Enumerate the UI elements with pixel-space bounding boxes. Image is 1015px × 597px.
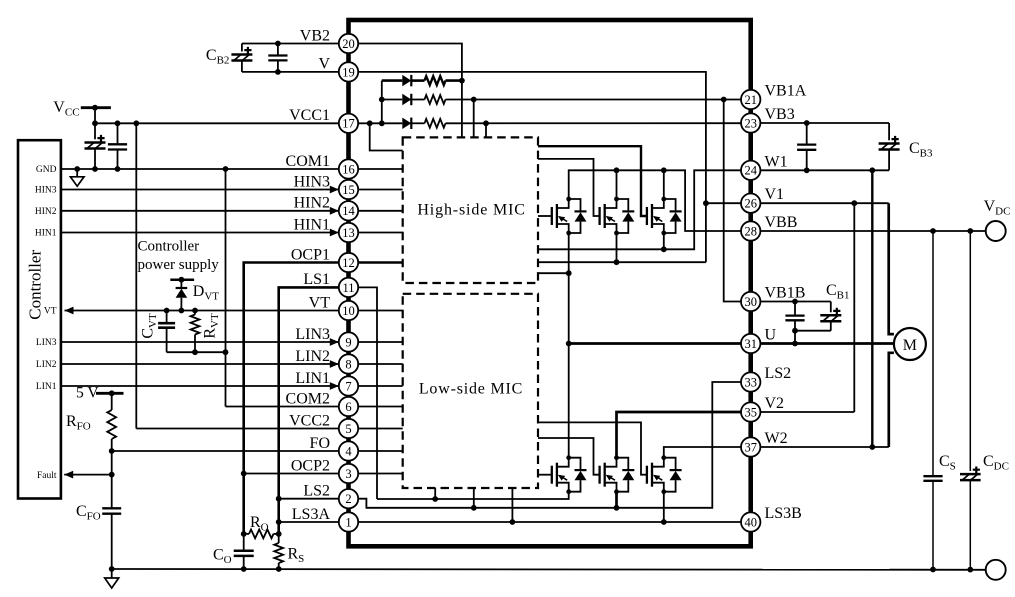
- svg-text:High-side MIC: High-side MIC: [417, 201, 525, 218]
- transistor Q4 low-side U: [552, 455, 587, 494]
- controller pin label HIN2: [35, 207, 57, 217]
- svg-text:LIN1: LIN1: [36, 382, 57, 392]
- wire W2 node to pin 37: [664, 447, 751, 458]
- pin 30: [741, 292, 760, 311]
- wire HIN2 into high-side MIC: [349, 210, 403, 212]
- svg-text:LIN1: LIN1: [295, 370, 330, 387]
- pin 1: [339, 512, 358, 531]
- wire high-side gate feed U phase: [538, 215, 552, 217]
- wire V1 row to pin 26: [706, 202, 751, 204]
- svg-text:Low-side MIC: Low-side MIC: [419, 381, 523, 398]
- wire U row pin 31 to motor: [569, 342, 894, 345]
- wire low-side gate feed W phase: [538, 422, 647, 474]
- bootstrap branch 1 diode and resistor: [382, 75, 465, 86]
- wire COM1 / GND row: [61, 166, 349, 172]
- label COM2 at pin: [286, 390, 330, 407]
- svg-text:V: V: [318, 56, 330, 73]
- svg-text:LS2: LS2: [765, 365, 792, 382]
- bootstrap branch 3 diode and resistor on VCC1 row: [349, 118, 751, 129]
- pin 14: [339, 201, 358, 220]
- transistor Q6 low-side W: [647, 455, 682, 494]
- label LS3B at pin: [765, 505, 802, 522]
- label VB1B at pin: [765, 285, 806, 302]
- pin 28: [741, 221, 760, 240]
- transistor Q1 high-side U: [552, 197, 587, 236]
- wire HIN1 row: [61, 229, 339, 237]
- wire VB1A row to pin 21 riser to pin 30: [724, 100, 751, 302]
- label FO at pin: [310, 435, 330, 452]
- svg-text:U: U: [765, 327, 777, 344]
- wire high-side MIC U source sense: [538, 270, 572, 276]
- controller block: [18, 140, 61, 498]
- svg-text:10: 10: [342, 304, 355, 318]
- svg-text:Controller: Controller: [26, 250, 45, 320]
- pin 24: [741, 161, 760, 180]
- motor M: [894, 328, 926, 360]
- svg-text:11: 11: [342, 281, 354, 295]
- svg-text:1: 1: [345, 515, 351, 529]
- svg-text:2: 2: [345, 492, 351, 506]
- capacitor electrolytic CB3: [879, 123, 933, 170]
- wire VB1B row external: [751, 299, 831, 305]
- controller pin label LIN2: [36, 360, 57, 370]
- label LIN1 at pin: [295, 370, 330, 387]
- svg-text:COM1: COM1: [286, 153, 330, 170]
- capacitor ceramic at CB3: [797, 123, 816, 170]
- label VT at pin: [309, 294, 331, 311]
- svg-text:LIN3: LIN3: [295, 326, 330, 343]
- svg-text:16: 16: [342, 162, 355, 176]
- wire LS3 source rail pin 1 to pin 40: [279, 519, 751, 525]
- svg-text:LS3A: LS3A: [292, 506, 331, 523]
- resistor RS: [274, 534, 304, 569]
- svg-text:HIN1: HIN1: [294, 216, 330, 233]
- svg-text:LIN3: LIN3: [36, 338, 57, 348]
- capacitor electrolytic at VCC: [85, 123, 106, 169]
- pin 6: [339, 397, 358, 416]
- svg-text:HIN3: HIN3: [35, 186, 57, 196]
- svg-text:30: 30: [744, 295, 757, 309]
- wire RFO to Fault vertical: [109, 451, 115, 478]
- wire VT into low-side MIC: [349, 310, 403, 312]
- label W1 at pin: [765, 153, 788, 170]
- wire LS1 source rail: [377, 492, 569, 502]
- wire V phase motor drop: [889, 203, 894, 334]
- wire LS1 run to shunt: [276, 287, 349, 534]
- controller pin label LIN3: [36, 338, 57, 348]
- wire low-side MIC sense tick W: [511, 488, 513, 522]
- controller pin label VT: [44, 307, 57, 317]
- wire LS1 inside run: [349, 287, 378, 499]
- wire bootstrap left vertical: [379, 81, 385, 127]
- pin 20: [339, 34, 358, 53]
- resistor RVT: [191, 311, 221, 353]
- wire LIN3 row: [61, 338, 339, 346]
- pin 11: [339, 278, 358, 297]
- controller pin label HIN3: [35, 186, 57, 196]
- resistor RFO: [66, 393, 116, 451]
- wire low-side MIC sense tick V: [473, 488, 475, 508]
- transistor Q5 low-side V: [600, 455, 635, 494]
- svg-text:31: 31: [744, 337, 757, 351]
- pin 5: [339, 419, 358, 438]
- wire VCC2 row: [136, 428, 348, 430]
- wire V2 row external: [751, 411, 855, 413]
- wire W2 row external to motor riser: [751, 446, 889, 448]
- wire LIN2 into low-side MIC: [349, 363, 403, 365]
- svg-text:33: 33: [744, 375, 757, 389]
- svg-text:23: 23: [744, 116, 757, 130]
- wire HIN2 row: [61, 207, 339, 215]
- bootstrap branch 2 diode and resistor: [382, 94, 751, 105]
- wire Fault row: [64, 471, 112, 479]
- wire LIN1 row: [61, 382, 339, 390]
- transistor Q2 high-side V: [600, 197, 635, 236]
- label VCC2 at pin: [289, 412, 330, 429]
- label VBB at pin: [765, 214, 798, 231]
- svg-text:HIN2: HIN2: [294, 195, 330, 212]
- svg-text:HIN2: HIN2: [35, 207, 57, 217]
- capacitor CVT: [140, 311, 176, 353]
- label V at pin: [318, 56, 330, 73]
- pin 12: [339, 253, 358, 272]
- wire VT row: [65, 307, 349, 315]
- svg-text:4: 4: [345, 444, 352, 458]
- svg-text:5: 5: [345, 422, 351, 436]
- wire COM2 row: [226, 406, 349, 408]
- svg-text:15: 15: [342, 183, 355, 197]
- resistor RO: [241, 514, 282, 538]
- terminal VDC: [984, 198, 1011, 241]
- node VCC supply: [53, 99, 111, 123]
- ground symbol at bottom left: [105, 569, 119, 588]
- pin 9: [339, 332, 358, 351]
- pin 23: [741, 113, 760, 132]
- svg-text:OCP2: OCP2: [291, 457, 330, 474]
- svg-text:14: 14: [342, 204, 355, 218]
- pin 3: [339, 464, 358, 483]
- svg-text:V2: V2: [765, 395, 785, 412]
- controller pin label Fault: [37, 471, 57, 481]
- wire Q5 source drop: [615, 492, 618, 508]
- svg-text:LS3B: LS3B: [765, 505, 802, 522]
- IC package outline U1: [349, 20, 751, 546]
- wire LIN1 into low-side MIC: [349, 385, 403, 387]
- svg-text:VCC2: VCC2: [289, 412, 330, 429]
- wire Q3 drain riser: [663, 170, 665, 199]
- svg-text:OCP1: OCP1: [291, 246, 330, 263]
- svg-text:LS2: LS2: [303, 483, 330, 500]
- wire W1 to W2 tie: [869, 170, 875, 450]
- svg-text:19: 19: [342, 65, 355, 79]
- pin 2: [339, 489, 358, 508]
- wire VB2 row: [242, 41, 349, 47]
- pin 15: [339, 180, 358, 199]
- svg-text:40: 40: [744, 515, 757, 529]
- capacitor CFO: [76, 475, 121, 569]
- svg-text:VT: VT: [309, 294, 331, 311]
- label U at pin: [765, 327, 777, 344]
- label V2 at pin: [765, 395, 785, 412]
- svg-text:VB1B: VB1B: [765, 285, 806, 302]
- wire COM1 into high-side MIC: [349, 168, 403, 170]
- label VB2 at pin: [300, 27, 330, 44]
- wire HIN3 row: [61, 186, 339, 194]
- wire HIN1 into high-side MIC: [349, 232, 403, 234]
- wire Q2 source drop: [616, 233, 618, 262]
- svg-text:V1: V1: [765, 186, 785, 203]
- svg-text:HIN1: HIN1: [35, 229, 57, 239]
- pin 4: [339, 441, 358, 460]
- pin 17: [339, 114, 358, 133]
- wire GND to COM2 vertical: [225, 169, 227, 407]
- svg-text:24: 24: [744, 164, 757, 178]
- svg-text:power supply: power supply: [138, 257, 220, 273]
- wire V1 to V2 tie: [853, 203, 855, 412]
- label controller power supply: [138, 239, 220, 274]
- terminal negative DC bus: [986, 560, 1006, 580]
- capacitor electrolytic CB2: [206, 44, 253, 72]
- wire ground bus bottom: [109, 566, 986, 572]
- label HIN3 at pin: [294, 173, 330, 190]
- controller pin label LIN1: [36, 382, 57, 392]
- transistor Q3 high-side W: [647, 197, 682, 236]
- wire Q3 source to pin 24 W1: [538, 170, 751, 252]
- label LS2 at pin: [303, 483, 330, 500]
- svg-text:LIN2: LIN2: [36, 360, 57, 370]
- svg-text:HIN3: HIN3: [294, 173, 330, 190]
- wire OCP2 into low-side MIC: [349, 473, 403, 475]
- wire OCP1 run to sense network: [244, 263, 349, 534]
- wire V1 row external to motor drop: [751, 200, 889, 206]
- svg-text:20: 20: [342, 37, 355, 51]
- svg-text:26: 26: [744, 197, 757, 211]
- wire low-side MIC sense tick U: [434, 488, 436, 499]
- wire VB3 row external: [751, 120, 889, 126]
- wire VBB row to VDC terminal: [751, 228, 986, 234]
- pin 40: [741, 512, 760, 531]
- wire LIN2 row: [61, 360, 339, 368]
- wire Q2 source rail V1: [538, 259, 706, 265]
- capacitor electrolytic CDC: [960, 231, 1009, 570]
- wire CVT RVT ground rail: [167, 349, 229, 355]
- wire V2 node to pin 35: [617, 412, 751, 458]
- svg-text:21: 21: [744, 93, 757, 107]
- wire VCC1 into high-side MIC: [370, 123, 403, 150]
- svg-text:GND: GND: [36, 165, 57, 175]
- wire VCC1 to VCC2 vertical: [135, 123, 137, 428]
- svg-text:M: M: [903, 337, 917, 354]
- svg-text:W1: W1: [765, 153, 788, 170]
- wire LS2 row left: [279, 498, 349, 500]
- svg-text:6: 6: [345, 400, 351, 414]
- svg-text:7: 7: [345, 379, 351, 393]
- svg-text:12: 12: [342, 256, 355, 270]
- svg-text:VB2: VB2: [300, 27, 330, 44]
- wire Q6 source drop: [663, 492, 665, 522]
- svg-text:13: 13: [342, 226, 355, 240]
- pin 8: [339, 354, 358, 373]
- capacitor ceramic at CB2: [268, 44, 287, 72]
- label LS1 at pin: [303, 271, 330, 288]
- capacitor ceramic at CB1: [785, 302, 804, 331]
- wire FO into low-side MIC: [349, 450, 403, 452]
- diode DVT: [170, 277, 219, 311]
- wire high-side gate feed W phase: [538, 146, 647, 216]
- svg-text:VB1A: VB1A: [765, 83, 807, 100]
- pin 33: [741, 372, 760, 391]
- high-side MIC block: [403, 137, 538, 283]
- wire V row to pin 19: [242, 69, 349, 75]
- capacitor electrolytic CB1: [820, 282, 849, 331]
- label W2 at pin: [765, 430, 788, 447]
- low-side MIC block: [403, 294, 538, 488]
- controller pin label HIN1: [35, 229, 57, 239]
- svg-text:28: 28: [744, 224, 757, 238]
- svg-text:VB3: VB3: [765, 106, 795, 123]
- label VB1A at pin: [765, 83, 807, 100]
- label HIN2 at pin: [294, 195, 330, 212]
- svg-text:Controller: Controller: [138, 239, 200, 255]
- wire branch 2 into high-side MIC: [473, 100, 475, 138]
- capacitor CS: [923, 231, 955, 570]
- pin 19: [339, 62, 358, 81]
- label COM1 at pin: [286, 153, 330, 170]
- label LIN2 at pin: [295, 348, 330, 365]
- svg-text:9: 9: [345, 335, 351, 349]
- svg-text:Fault: Fault: [37, 471, 57, 481]
- svg-text:COM2: COM2: [286, 390, 330, 407]
- svg-text:17: 17: [342, 117, 355, 131]
- wire VCC2 into low-side MIC: [349, 428, 403, 430]
- label HIN1 at pin: [294, 216, 330, 233]
- wire FO row: [109, 448, 349, 454]
- capacitor ceramic at VCC: [108, 123, 127, 169]
- pin 10: [339, 301, 358, 320]
- wire U phase node column: [566, 233, 572, 458]
- pin 37: [741, 437, 760, 456]
- wire high-side gate feed V phase: [538, 159, 600, 216]
- wire W phase motor riser: [889, 353, 894, 447]
- pin 16: [339, 159, 358, 178]
- svg-text:37: 37: [744, 440, 757, 454]
- label LS3A at pin: [292, 506, 331, 523]
- svg-text:LS1: LS1: [303, 271, 330, 288]
- wire COM2 into low-side MIC: [349, 406, 403, 408]
- wire LS2 source rail pin 2 to pin 33: [349, 382, 751, 511]
- wire LIN3 into low-side MIC: [349, 341, 403, 343]
- label VCC1 at pin: [289, 107, 330, 124]
- svg-text:VBB: VBB: [765, 214, 798, 231]
- node 5V supply: [76, 385, 124, 402]
- wire V pin 19 to V1 node: [349, 72, 709, 262]
- controller pin label GND: [36, 165, 57, 175]
- svg-text:35: 35: [744, 405, 757, 419]
- pin 13: [339, 223, 358, 242]
- wire Q3 source drop: [663, 233, 665, 249]
- wire branch 3 into high-side MIC: [485, 123, 487, 137]
- pin 21: [741, 90, 760, 109]
- label OCP2 at pin: [291, 457, 330, 474]
- svg-text:5 V: 5 V: [76, 385, 99, 402]
- label LS2 at pin: [765, 365, 792, 382]
- pin 7: [339, 376, 358, 395]
- wire VCC1 row to pin 17: [92, 120, 348, 126]
- svg-text:LIN2: LIN2: [295, 348, 330, 365]
- wire OCP1 into high-side MIC: [349, 261, 403, 264]
- label LIN3 at pin: [295, 326, 330, 343]
- pin 35: [741, 402, 760, 421]
- label V1 at pin: [765, 186, 785, 203]
- label OCP1 at pin: [291, 246, 330, 263]
- pin 26: [741, 194, 760, 213]
- wire W1 row external: [751, 167, 889, 173]
- wire low-side gate feed U phase: [538, 474, 552, 476]
- wire OCP2 row: [241, 471, 349, 477]
- svg-text:FO: FO: [310, 435, 330, 452]
- capacitor CO: [213, 534, 254, 569]
- svg-text:VCC1: VCC1: [289, 107, 330, 124]
- label VB3 at pin: [765, 106, 795, 123]
- wire CB1 bottom rail to U: [792, 328, 831, 347]
- svg-text:W2: W2: [765, 430, 788, 447]
- pin 31: [741, 334, 760, 353]
- ground symbol at controller GND: [70, 169, 84, 186]
- wire HIN3 into high-side MIC: [349, 189, 403, 191]
- wire Q2 drain riser: [616, 170, 618, 199]
- svg-text:VT: VT: [44, 307, 57, 317]
- wire pin 20 VB2 into high-side MIC: [349, 44, 462, 138]
- svg-text:8: 8: [345, 357, 351, 371]
- wire VBB drain rail to pin 28: [569, 167, 751, 231]
- wire low-side gate feed V phase: [538, 438, 600, 475]
- svg-text:3: 3: [345, 467, 351, 481]
